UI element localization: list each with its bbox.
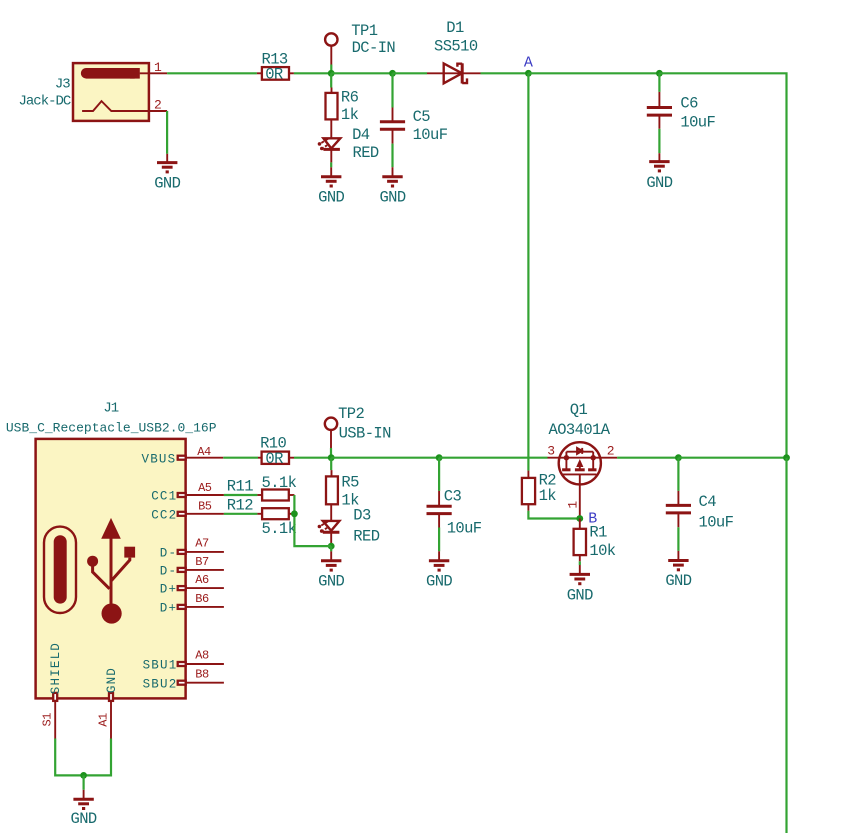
J3 reference label: [55, 77, 70, 93]
wire C3 junction to Q1 pin 3: [439, 457, 547, 459]
J1 USB trident icon: [87, 518, 135, 624]
TP1 net name DC-IN: [352, 39, 396, 57]
pin VBUS A4 of J1: [142, 445, 224, 466]
svg-text:R11: R11: [227, 478, 253, 496]
D3 value RED: [353, 527, 379, 545]
wire C4 junction to right rail: [678, 457, 786, 459]
LED D3: [318, 504, 371, 546]
LED D4: [318, 119, 370, 162]
wire TP2 to rail: [330, 448, 332, 458]
ground below J3: [154, 154, 180, 193]
svg-text:SBU1: SBU1: [143, 659, 178, 673]
wire C6 top: [658, 73, 660, 92]
svg-text:GND: GND: [567, 586, 593, 604]
wire S1 to GND: [55, 739, 83, 776]
wire C4 top: [677, 458, 679, 491]
D1 value SS510: [434, 38, 478, 56]
J1 USB-C pill icon: [44, 527, 76, 613]
svg-text:B6: B6: [195, 592, 209, 606]
svg-text:S1: S1: [41, 713, 55, 727]
wire C3 top: [438, 458, 440, 491]
svg-text:J1: J1: [103, 400, 118, 416]
resistor R5: [326, 470, 359, 504]
svg-text:C4: C4: [699, 493, 717, 511]
R2 value 1k: [539, 487, 557, 505]
wire R6 top: [330, 73, 332, 87]
wire C5 to GND: [391, 144, 393, 168]
svg-text:GND: GND: [646, 174, 672, 192]
svg-text:RED: RED: [353, 527, 379, 545]
svg-text:10uF: 10uF: [447, 519, 482, 537]
junction at right rail: [783, 454, 790, 461]
wire C5 junction to D1: [393, 72, 428, 74]
pin 2 of J3: [149, 97, 167, 112]
J1 value label: [6, 421, 217, 436]
svg-text:AO3401A: AO3401A: [549, 421, 611, 439]
svg-text:GND: GND: [665, 572, 691, 590]
ground below R1: [567, 565, 593, 604]
wire Q1 pin 2 to C4 junction: [617, 457, 678, 459]
wire node A to C6 junction: [528, 72, 659, 74]
capacitor C3: [427, 488, 462, 528]
svg-text:DC-IN: DC-IN: [352, 39, 396, 57]
svg-text:GND: GND: [318, 573, 344, 591]
wire R13 to TP1 junction: [294, 72, 331, 74]
svg-text:R12: R12: [227, 496, 253, 514]
ground below C3: [426, 551, 452, 590]
wire C5 top: [391, 73, 393, 107]
C4 value 10uF: [699, 513, 734, 531]
svg-text:R1: R1: [589, 523, 607, 541]
svg-text:A1: A1: [96, 713, 110, 727]
resistor R11: [227, 478, 295, 501]
svg-text:J3: J3: [55, 77, 70, 93]
wire C4 to GND: [677, 527, 679, 551]
wire R10 to TP2 junction: [294, 457, 331, 459]
svg-text:A7: A7: [195, 536, 209, 550]
wire D4 to GND: [330, 162, 332, 167]
resistor R1: [574, 519, 608, 562]
label A: [524, 55, 533, 72]
resistor R2: [522, 471, 556, 511]
svg-text:0R: 0R: [265, 450, 283, 468]
resistor R6: [326, 88, 359, 120]
svg-text:2: 2: [607, 444, 614, 459]
svg-text:D-: D-: [160, 565, 177, 579]
wire CC2 to R12: [224, 513, 258, 515]
Q1 value AO3401A: [549, 421, 611, 439]
svg-text:D+: D+: [160, 583, 177, 597]
wire node A to R2: [527, 73, 529, 470]
svg-text:D1: D1: [446, 19, 464, 37]
svg-text:GND: GND: [154, 175, 180, 193]
svg-text:1k: 1k: [341, 106, 359, 124]
ground below C5: [379, 167, 405, 206]
D4 value RED: [353, 144, 379, 162]
svg-text:1k: 1k: [539, 487, 557, 505]
svg-text:1: 1: [566, 501, 581, 509]
pin CC2 B5 of J1: [151, 500, 224, 523]
svg-text:TP1: TP1: [351, 22, 377, 40]
resistor R10: [258, 434, 294, 464]
svg-text:C5: C5: [413, 108, 431, 126]
svg-text:B7: B7: [195, 555, 209, 569]
J1 reference label: [103, 400, 118, 416]
wire J3 pin1 to R13: [167, 72, 257, 74]
ground below C6: [646, 153, 672, 192]
svg-text:10uF: 10uF: [680, 113, 715, 131]
test point TP1: [325, 22, 378, 65]
C6 value 10uF: [680, 113, 715, 131]
svg-text:Jack-DC: Jack-DC: [19, 94, 71, 110]
wire C3 to GND: [438, 528, 440, 552]
R11 value 5.1k: [262, 474, 297, 492]
transistor Q1: [547, 442, 617, 518]
wire TP1 to rail: [330, 65, 332, 74]
svg-text:D3: D3: [353, 507, 371, 525]
pin D- A7 of J1: [160, 536, 224, 560]
svg-text:GND: GND: [318, 188, 344, 206]
svg-text:VBUS: VBUS: [142, 452, 177, 466]
pin SHIELD S1 of J1: [41, 642, 64, 739]
TP2 net name USB-IN: [339, 424, 392, 442]
pin SBU2 B8 of J1: [143, 667, 224, 691]
svg-text:3: 3: [547, 444, 554, 459]
resistor R13: [257, 51, 294, 80]
pin GND A1 of J1: [96, 667, 119, 739]
R6 value 1k: [341, 106, 359, 124]
svg-text:RED: RED: [353, 144, 379, 162]
junction at R12: [291, 510, 298, 517]
svg-text:A6: A6: [195, 573, 209, 587]
label B: [588, 511, 597, 528]
wire VBUS pin to R10: [223, 457, 258, 459]
test point TP2: [325, 405, 365, 448]
capacitor C6: [647, 92, 698, 129]
svg-text:C6: C6: [680, 95, 698, 113]
wire D3 to GND: [330, 546, 332, 551]
connector J1 body: [36, 439, 186, 699]
junction at TP2: [328, 454, 335, 461]
pin D- B7 of J1: [160, 555, 224, 579]
svg-text:10uF: 10uF: [413, 126, 448, 144]
ground below C4: [665, 551, 691, 590]
svg-text:10uF: 10uF: [699, 513, 734, 531]
wire R1 to GND: [579, 561, 581, 565]
junction node A: [525, 70, 532, 77]
ground below J1: [71, 790, 97, 828]
svg-text:GND: GND: [71, 810, 97, 828]
wire R2 to node B: [528, 511, 579, 519]
pin SBU1 A8 of J1: [143, 649, 224, 673]
ground below D3: [318, 551, 344, 590]
connector J3: [73, 63, 149, 121]
J3 value label Jack-DC: [19, 94, 71, 110]
R13 value 0R: [265, 65, 283, 83]
pin D+ B6 of J1: [160, 592, 224, 616]
ground below D4: [318, 167, 344, 206]
junction at C3: [436, 454, 443, 461]
svg-text:B8: B8: [195, 667, 209, 681]
C5 value 10uF: [413, 126, 448, 144]
svg-text:CC2: CC2: [151, 508, 177, 522]
resistor R12: [227, 496, 295, 519]
capacitor C5: [380, 108, 430, 144]
junction below D3: [328, 543, 335, 550]
svg-text:A: A: [524, 55, 533, 72]
R1 value 10k: [589, 542, 615, 560]
svg-text:SHIELD: SHIELD: [49, 642, 63, 694]
svg-text:GND: GND: [105, 667, 119, 693]
svg-text:1: 1: [154, 60, 162, 75]
diode D1: [427, 19, 481, 84]
svg-text:USB-IN: USB-IN: [339, 424, 392, 442]
svg-text:D-: D-: [160, 547, 177, 561]
wire junction to GND: [82, 775, 84, 789]
R10 value 0R: [265, 450, 283, 468]
svg-text:2: 2: [154, 97, 161, 112]
svg-text:R5: R5: [341, 474, 359, 492]
svg-text:A8: A8: [195, 649, 209, 663]
svg-text:B5: B5: [198, 500, 212, 514]
svg-text:D4: D4: [352, 126, 370, 144]
wire right rail to bottom: [785, 458, 787, 833]
svg-text:0R: 0R: [265, 65, 283, 83]
junction at C4: [675, 454, 682, 461]
svg-text:10k: 10k: [589, 542, 615, 560]
svg-text:CC1: CC1: [151, 490, 177, 504]
pin 1 of J3: [140, 60, 167, 75]
pin D+ A6 of J1: [160, 573, 224, 597]
capacitor C4: [666, 491, 716, 527]
wire R5 top: [330, 458, 332, 470]
svg-text:5.1k: 5.1k: [262, 474, 297, 492]
svg-text:A4: A4: [197, 445, 211, 459]
wire C6 junction to top right corner: [659, 73, 786, 457]
junction at C6: [656, 70, 663, 77]
wire D1 to node A: [481, 72, 529, 74]
junction at TP1: [328, 70, 335, 77]
wire TP1 junction to C5 junction: [331, 72, 392, 74]
R5 value 1k: [341, 491, 359, 509]
junction at C5: [389, 70, 396, 77]
svg-text:Q1: Q1: [570, 401, 588, 419]
svg-text:GND: GND: [426, 573, 452, 591]
C3 value 10uF: [447, 519, 482, 537]
pin CC1 A5 of J1: [151, 481, 224, 504]
svg-text:R6: R6: [341, 88, 359, 106]
R12 value 5.1k: [262, 520, 297, 538]
svg-text:SBU2: SBU2: [143, 677, 178, 691]
svg-text:5.1k: 5.1k: [262, 520, 297, 538]
wire A1 to GND: [84, 739, 111, 776]
junction node B: [576, 515, 583, 522]
wire CC1 to R11: [224, 494, 258, 496]
svg-text:C3: C3: [444, 488, 462, 506]
svg-text:D+: D+: [160, 602, 177, 616]
svg-text:GND: GND: [379, 188, 405, 206]
Q1 reference label: [570, 401, 588, 419]
wire J3 pin2 to GND: [166, 111, 168, 154]
wire TP2 junction to C3 junction: [331, 457, 439, 459]
wire C6 to GND: [658, 129, 660, 153]
svg-text:TP2: TP2: [338, 405, 364, 423]
svg-text:A5: A5: [198, 481, 212, 495]
wire R11 R12 to D3 junction: [294, 495, 331, 546]
junction below J1: [80, 772, 87, 779]
svg-text:USB_C_Receptacle_USB2.0_16P: USB_C_Receptacle_USB2.0_16P: [6, 421, 217, 436]
svg-text:SS510: SS510: [434, 38, 478, 56]
